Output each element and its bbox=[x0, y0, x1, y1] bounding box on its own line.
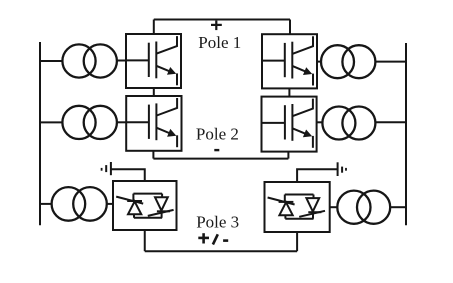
IGBT inside U2 bbox=[262, 36, 313, 85]
IGBT inside U1 bbox=[126, 36, 177, 85]
svg-text:Pole 3: Pole 3 bbox=[196, 212, 239, 231]
wire: T5 to U5 bbox=[107, 203, 113, 205]
converter box U4 (pole 2 right, VSC) bbox=[262, 97, 317, 152]
wire: bipolar bus (bottom) bbox=[145, 250, 297, 252]
wire: U6 to T6 bbox=[330, 206, 338, 208]
transformer T5 bbox=[52, 187, 107, 221]
wire: U5 bottom stub bbox=[144, 230, 146, 251]
wire: GND2 to U6 top bbox=[297, 169, 338, 182]
converter box U3 (pole 2 left, VSC) bbox=[126, 96, 181, 151]
right AC bus bbox=[405, 43, 407, 225]
ground GND1 (left, rotated) bbox=[102, 162, 111, 175]
wire: T3 to pole2 left converter bbox=[117, 121, 126, 123]
label - (pole 2 polarity) bbox=[214, 149, 219, 151]
wire: top stub to U2 bbox=[289, 20, 291, 35]
converter box U2 (pole 1 right, VSC) bbox=[262, 34, 317, 88]
ground GND2 (right, rotated) bbox=[338, 162, 346, 176]
wire: T6 to right bus bbox=[390, 206, 406, 208]
svg-text:Pole 1: Pole 1 bbox=[198, 33, 241, 52]
converter box U5 (pole 3 left, CSC) bbox=[113, 181, 177, 230]
IGBT inside U4 bbox=[262, 99, 313, 148]
wire: left bus to T1 bbox=[40, 60, 62, 62]
svg-text:Pole 2: Pole 2 bbox=[196, 125, 239, 144]
transformer T4 bbox=[322, 107, 375, 140]
wire: U6 bottom stub bbox=[296, 232, 298, 251]
thyristor pair inside U5 bbox=[116, 194, 173, 218]
wire: U4 bottom stub bbox=[287, 152, 289, 159]
converter box U6 (pole 3 right, CSC) bbox=[265, 182, 330, 232]
transformer T2 bbox=[321, 45, 375, 78]
wire: left bus to T5 bbox=[40, 203, 52, 205]
wire: connector U2 to U4 bbox=[288, 88, 290, 96]
wire: U3 bottom stub bbox=[152, 151, 154, 159]
label +/- (pole 3 polarity) bbox=[198, 233, 228, 244]
IGBT inside U3 bbox=[126, 98, 177, 147]
wire: left bus to T3 bbox=[40, 121, 62, 123]
wire: GND1 to U5 top bbox=[111, 169, 145, 181]
transformer T1 bbox=[62, 44, 117, 77]
wire: top stub from U1 bbox=[153, 20, 155, 35]
wire: U4 to T4 bbox=[317, 121, 323, 123]
transformer T3 bbox=[62, 106, 117, 139]
left AC bus bbox=[39, 42, 41, 225]
wire: connector U1 to U3 bbox=[153, 88, 155, 96]
wire: U2 to T2 bbox=[317, 61, 321, 63]
wire: T1 to pole1 left converter bbox=[117, 60, 126, 62]
wire: T4 to right bus bbox=[375, 121, 406, 123]
thyristor pair inside U6 bbox=[268, 195, 325, 219]
transformer T6 bbox=[337, 191, 390, 224]
wire: positive pole bus (top) bbox=[154, 19, 290, 21]
label + (pole 1 polarity) bbox=[211, 21, 222, 31]
wire: T2 to right bus bbox=[375, 61, 406, 63]
wire: negative pole bus bbox=[153, 158, 288, 160]
converter box U1 (pole 1 left, VSC) bbox=[126, 34, 181, 88]
